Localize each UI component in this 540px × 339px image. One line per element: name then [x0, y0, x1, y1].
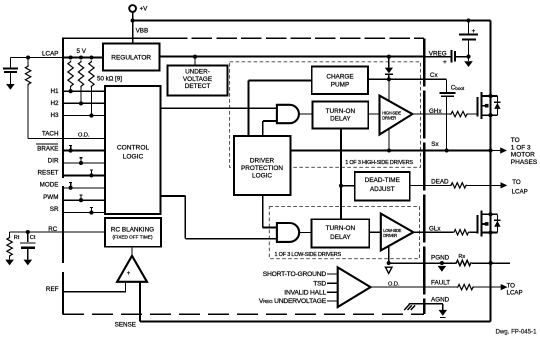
box CHARGE PUMP: [312, 67, 368, 94]
wire input short-to-ground: [327, 273, 338, 275]
chip outline left edge: [62, 38, 64, 179]
node R2 top: [79, 55, 83, 59]
svg-text:GLx: GLx: [429, 225, 441, 232]
op-amp current comparator: [117, 256, 147, 282]
capacitor Cboot: [446, 79, 448, 92]
node VBB junction: [131, 18, 135, 22]
amplifier LOW-SIDE DRIVER: [381, 214, 414, 251]
wire H2: [63, 102, 105, 104]
node R3 top: [89, 55, 93, 59]
wire LCAP external: [10, 57, 63, 59]
svg-text:VBB: VBB: [136, 28, 149, 35]
wire dead-time left: [341, 185, 355, 187]
svg-text:DETECT: DETECT: [185, 83, 211, 90]
node Sx rail junction: [488, 148, 492, 152]
wire control to high-side gate: [160, 107, 277, 109]
svg-text:O.D.: O.D.: [78, 132, 90, 138]
svg-text:REGULATOR: REGULATOR: [111, 55, 151, 62]
svg-text:SR: SR: [50, 206, 59, 213]
wire H3: [63, 115, 105, 117]
resistor Rs sense: [455, 260, 472, 265]
svg-text:+: +: [472, 28, 476, 35]
svg-text:O.D.: O.D.: [388, 282, 400, 288]
wire SR: [63, 212, 105, 214]
svg-text:TURN-ON: TURN-ON: [326, 108, 356, 115]
input pull-up RESET: [89, 173, 93, 177]
svg-text:Dwg. FP-045-1: Dwg. FP-045-1: [496, 329, 538, 336]
svg-text:DEAD-TIME: DEAD-TIME: [365, 177, 400, 184]
node low driver PGND junction: [387, 261, 391, 265]
node PGND ground junction: [440, 261, 444, 265]
svg-text:MODE: MODE: [40, 182, 59, 189]
chip outline top edge: [62, 37, 167, 39]
box REGULATOR: [103, 44, 160, 71]
transistor low-side MOSFET: [477, 215, 479, 234]
svg-text:Cx: Cx: [430, 72, 439, 79]
resistor Rt: [9, 232, 11, 236]
svg-text:BRAKE: BRAKE: [37, 145, 58, 152]
terminal +V: [129, 5, 136, 12]
wire low driver to PGND: [388, 246, 390, 263]
arrow to motor phases: [491, 150, 501, 152]
wire delay link vertical: [340, 129, 342, 220]
node H2 junction: [79, 101, 83, 105]
svg-text:SENSE: SENSE: [115, 321, 136, 328]
node VREG-diode junction: [387, 55, 391, 59]
wire Rs to rail: [472, 262, 510, 264]
svg-text:Sx: Sx: [431, 141, 439, 148]
svg-text:DRIVER: DRIVER: [382, 116, 396, 121]
box TURN-ON DELAY high-side: [313, 102, 369, 129]
svg-text:H1: H1: [50, 88, 59, 95]
svg-text:MOTOR: MOTOR: [511, 152, 535, 159]
input pull-up PWM: [79, 198, 83, 202]
resistor pull-up H2: [78, 61, 83, 88]
chip outline right edge: [423, 38, 425, 314]
svg-text:H2: H2: [50, 100, 59, 107]
wire VREG rail: [160, 56, 425, 58]
and-gate high-side U1: [277, 105, 299, 123]
svg-text:Rs: Rs: [458, 254, 465, 260]
wire GHx to gate: [468, 113, 478, 115]
node Cx-diode junction: [387, 77, 391, 81]
box TURN-ON DELAY low-side: [312, 219, 370, 247]
svg-text:LCAP: LCAP: [507, 289, 523, 296]
svg-text:LOGIC: LOGIC: [123, 153, 144, 160]
wire UVD drop: [194, 57, 196, 66]
wire and to turn-on delay: [299, 113, 313, 115]
svg-text:CONTROL: CONTROL: [117, 144, 150, 151]
svg-text:Ct: Ct: [30, 235, 36, 241]
svg-text:(FIXED OFF TIME): (FIXED OFF TIME): [112, 234, 152, 239]
wire high-side gate lower input: [263, 120, 277, 122]
svg-text:SHORT-TO-GROUND: SHORT-TO-GROUND: [263, 271, 327, 278]
svg-text:1 OF 3: 1 OF 3: [511, 144, 531, 151]
resistor pull-up H3: [89, 61, 94, 88]
svg-text:DRIVER: DRIVER: [383, 233, 397, 238]
wire PWM: [63, 199, 105, 201]
svg-text:GHx: GHx: [429, 108, 442, 115]
wire MODE: [63, 187, 105, 189]
node dead-time junction: [339, 184, 343, 188]
dashed box 1-of-3 high-side drivers: [230, 62, 421, 168]
svg-text:ADJUST: ADJUST: [370, 186, 395, 193]
wire 5V rail: [63, 57, 103, 59]
svg-text:PROTECTION: PROTECTION: [241, 165, 283, 172]
capacitor VREG decoupling: [450, 50, 452, 62]
capacitor LCAP external: [9, 58, 11, 68]
wire and2 to turn-on delay: [299, 231, 312, 233]
ground below PGND: [438, 266, 447, 272]
svg-text:DRIVER: DRIVER: [250, 157, 275, 164]
svg-text:PWM: PWM: [43, 194, 58, 201]
wire GLx: [413, 231, 453, 233]
svg-text:TACH: TACH: [42, 131, 59, 138]
node VREG cap junction: [466, 55, 470, 59]
wire driver hs bottom to Sx: [388, 129, 390, 151]
wire comparator output: [131, 247, 133, 256]
svg-text:LCAP: LCAP: [42, 50, 58, 57]
svg-text:VREG UNDERVOLTAGE: VREG UNDERVOLTAGE: [259, 298, 327, 305]
capacitor bulk supply: [459, 33, 478, 35]
svg-text:PGND: PGND: [431, 255, 450, 262]
box CONTROL LOGIC: [105, 86, 161, 214]
diode bootstrap: [388, 57, 390, 68]
label BRAKE overline: [36, 143, 58, 145]
input pull-up MODE: [69, 186, 73, 190]
input pull-up SR: [89, 211, 93, 215]
wire Cx line: [368, 78, 446, 80]
wire control to low-side gate: [160, 195, 185, 197]
chip outline bottom edge: [63, 313, 424, 315]
wire delay to driver hs: [368, 113, 379, 115]
svg-text:REF: REF: [46, 286, 59, 293]
resistor pull-up H1: [68, 61, 73, 88]
wire top +V rail: [133, 20, 491, 22]
svg-text:Cboot: Cboot: [451, 85, 465, 92]
wire FAULT to LCAP: [474, 286, 501, 288]
svg-text:INVALID HALL: INVALID HALL: [284, 289, 326, 296]
wire motor supply rail: [490, 21, 492, 264]
ground below Ct: [24, 260, 33, 266]
svg-text:RC: RC: [48, 226, 58, 233]
svg-text:UNDER-: UNDER-: [185, 69, 210, 76]
wire +V down to regulator: [132, 12, 134, 44]
wire RESET: [63, 174, 105, 176]
dashed box 1-of-3 low-side drivers: [269, 207, 419, 259]
svg-text:DELAY: DELAY: [330, 234, 351, 241]
wire REF: [63, 291, 125, 293]
wire PGND line: [389, 262, 456, 264]
svg-text:TO: TO: [512, 179, 521, 186]
svg-text:RESET: RESET: [38, 169, 59, 176]
svg-text:AGND: AGND: [431, 297, 450, 304]
ground below bulk cap: [464, 61, 473, 67]
svg-text:DIR: DIR: [48, 158, 59, 165]
amplifier HIGH-SIDE DRIVER: [380, 96, 413, 135]
svg-text:LCAP: LCAP: [512, 188, 528, 195]
resistor FAULT external: [457, 284, 474, 289]
wire input TSD: [327, 282, 338, 284]
wire bulk cap drop: [468, 21, 470, 34]
wire VREG pin external: [424, 56, 450, 58]
box DRIVER PROTECTION LOGIC: [234, 136, 291, 195]
node R1 top: [69, 55, 73, 59]
resistor TACH pull-up: [27, 58, 29, 66]
wire BRAKE: [63, 150, 105, 152]
svg-text:+: +: [127, 271, 131, 277]
ground below LCAP cap: [6, 84, 15, 90]
node RC-Ct junction: [26, 230, 30, 234]
wire GHx: [412, 113, 450, 115]
and-gate low-side U2: [277, 223, 299, 242]
wire TACH: [28, 137, 105, 139]
ground AGND: [439, 310, 448, 316]
input pull-up DIR: [79, 161, 83, 165]
wire protection to low-side gate: [262, 195, 264, 228]
svg-text:+V: +V: [140, 5, 149, 12]
svg-text:PUMP: PUMP: [331, 81, 349, 88]
wire DEAD pin: [410, 184, 450, 186]
wire Sx line: [290, 150, 490, 152]
svg-text:VREG: VREG: [429, 50, 447, 57]
resistor GHx gate external: [450, 111, 468, 116]
svg-text:VOLTAGE: VOLTAGE: [183, 76, 212, 83]
svg-text:DEAD: DEAD: [431, 178, 449, 185]
svg-text:DELAY: DELAY: [330, 116, 351, 123]
svg-text:LOGIC: LOGIC: [252, 172, 272, 179]
wire DEAD to LCAP: [467, 184, 501, 186]
node top rail to bulk cap: [466, 18, 470, 22]
ground below Rt: [5, 260, 14, 266]
capacitor Ct: [27, 232, 29, 242]
arrow open ground marker: [385, 267, 392, 273]
resistor DEAD external: [450, 183, 467, 188]
node Sx driver junction: [387, 148, 391, 152]
svg-text:CHARGE: CHARGE: [326, 74, 353, 81]
svg-text:TURN-ON: TURN-ON: [326, 225, 356, 232]
node Sx Cboot junction: [445, 148, 449, 152]
op-amp fault comparator: [338, 267, 371, 307]
svg-text:RC BLANKING: RC BLANKING: [111, 226, 154, 233]
svg-text:+: +: [443, 59, 447, 66]
wire input undervoltage: [327, 300, 338, 302]
node VREG-UVD junction: [193, 55, 197, 59]
wire driver hs top feed: [388, 79, 390, 102]
chassis ground internal: [404, 304, 415, 310]
box DEAD-TIME ADJUST: [355, 172, 410, 200]
wire rail to sense line: [490, 263, 492, 322]
wire delay2 to driver: [369, 231, 381, 233]
svg-text:TO: TO: [511, 137, 520, 144]
node Rs rail junction: [489, 261, 493, 265]
wire AGND: [409, 303, 443, 305]
wire RC: [10, 231, 105, 233]
svg-text:Rt: Rt: [14, 235, 20, 241]
svg-text:50 kΩ [9]: 50 kΩ [9]: [97, 75, 122, 82]
svg-text:FAULT: FAULT: [431, 279, 450, 286]
wire H1: [63, 90, 105, 92]
svg-text:TSD: TSD: [313, 280, 326, 287]
wire DIR: [63, 162, 105, 164]
svg-text:5 V: 5 V: [77, 48, 87, 55]
wire GLx to gate: [470, 231, 478, 233]
input pull-up BRAKE: [69, 149, 73, 153]
node H3 junction: [89, 114, 93, 118]
box UNDER-VOLTAGE DETECT: [168, 66, 228, 96]
wire AGND down: [442, 304, 444, 310]
node H1 junction: [69, 89, 73, 93]
wire SENSE input: [139, 282, 141, 322]
wire FAULT: [371, 286, 457, 288]
svg-text:PHASES: PHASES: [511, 159, 538, 166]
wire input invalid hall: [327, 291, 338, 293]
svg-text:H3: H3: [50, 112, 59, 119]
svg-text:1 OF 3 HIGH-SIDE DRIVERS: 1 OF 3 HIGH-SIDE DRIVERS: [345, 160, 413, 166]
box RC BLANKING: [105, 218, 161, 247]
wire SENSE: [140, 321, 491, 323]
node LCAP pullup junction: [26, 55, 30, 59]
svg-text:1 OF 3 LOW-SIDE DRIVERS: 1 OF 3 LOW-SIDE DRIVERS: [275, 252, 342, 258]
resistor GLx gate external: [453, 230, 470, 235]
transistor high-side MOSFET: [477, 97, 479, 117]
wire charge-pump to protection: [248, 79, 311, 81]
